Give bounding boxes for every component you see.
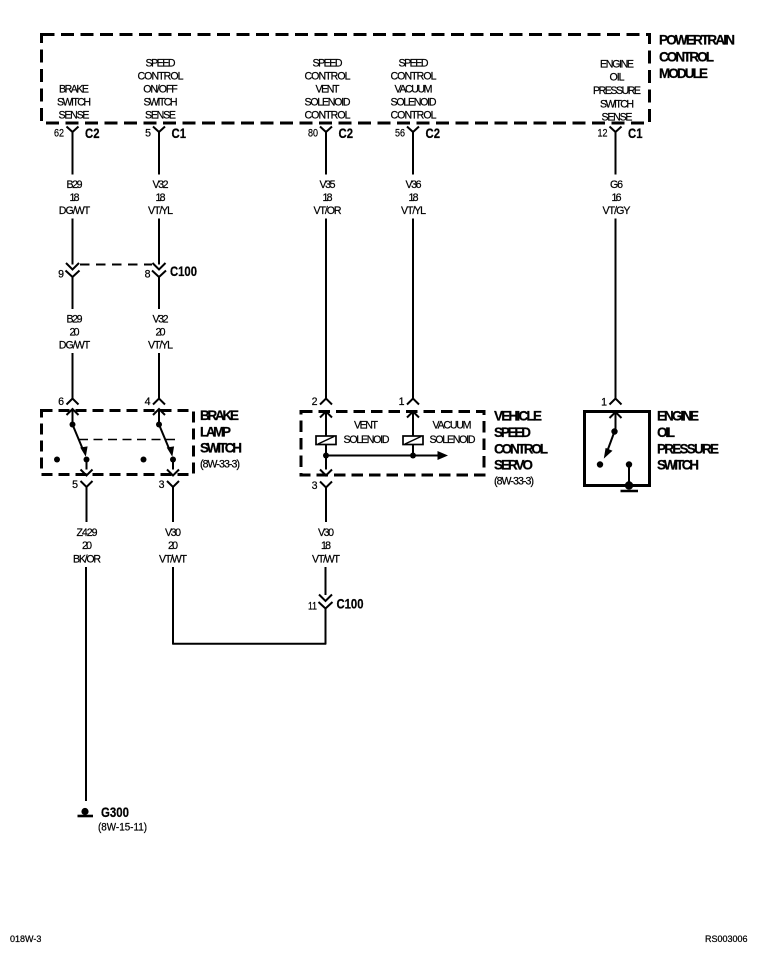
svg-text:20: 20 xyxy=(168,540,178,552)
engine oil pressure switch pin 1 xyxy=(601,397,621,432)
svg-text:CONTROL: CONTROL xyxy=(494,442,548,457)
svg-text:3: 3 xyxy=(312,480,318,492)
connector C2 pin 62 (PCM) xyxy=(54,126,100,141)
wire V30 18 VT/WT xyxy=(312,488,341,596)
vent solenoid label xyxy=(344,420,390,447)
svg-text:V30: V30 xyxy=(318,527,334,539)
svg-text:PRESSURE: PRESSURE xyxy=(593,85,641,97)
wire V30 to junction (vertical below C100) xyxy=(325,609,327,644)
svg-text:11: 11 xyxy=(308,601,317,613)
vacuum solenoid coil symbol xyxy=(403,436,423,456)
svg-text:ENGINE: ENGINE xyxy=(657,409,699,424)
svg-text:SOLENOID: SOLENOID xyxy=(430,434,476,446)
svg-text:CONTROL: CONTROL xyxy=(391,110,437,122)
wire V32 18 VT/YL (upper) xyxy=(148,139,173,265)
svg-text:VACUUM: VACUUM xyxy=(433,420,472,432)
brake lamp switch pole 1 open contact dot xyxy=(54,457,60,463)
svg-text:B29: B29 xyxy=(67,179,83,191)
servo pin 2 xyxy=(312,396,332,436)
servo pin 1 xyxy=(399,396,419,436)
drawing number xyxy=(705,934,748,944)
svg-text:VT/WT: VT/WT xyxy=(159,554,188,566)
svg-text:LAMP: LAMP xyxy=(200,425,231,440)
wire V36 18 VT/YL xyxy=(401,139,426,399)
svg-text:SENSE: SENSE xyxy=(145,110,176,122)
svg-text:DG/WT: DG/WT xyxy=(59,340,91,352)
svg-text:SOLENOID: SOLENOID xyxy=(305,97,351,109)
svg-text:C1: C1 xyxy=(172,126,187,141)
svg-text:2: 2 xyxy=(312,396,318,408)
svg-text:VT/YL: VT/YL xyxy=(148,205,173,217)
svg-text:C1: C1 xyxy=(628,126,643,141)
svg-text:12: 12 xyxy=(598,128,608,140)
vehicle speed control servo box (dashed) xyxy=(301,412,484,476)
svg-text:80: 80 xyxy=(308,128,318,140)
connector C100 pin 11 (in-line) xyxy=(308,595,364,613)
svg-text:MODULE: MODULE xyxy=(659,66,708,81)
svg-text:OIL: OIL xyxy=(610,72,625,84)
svg-text:C2: C2 xyxy=(339,126,354,141)
PCM pin label: BRAKE SWITCH SENSE xyxy=(57,84,91,122)
svg-text:B29: B29 xyxy=(67,314,83,326)
svg-text:SPEED: SPEED xyxy=(313,58,343,70)
vacuum solenoid label xyxy=(430,420,476,447)
svg-text:9: 9 xyxy=(58,269,64,281)
svg-text:5: 5 xyxy=(145,128,151,140)
svg-text:56: 56 xyxy=(395,128,405,140)
svg-text:V32: V32 xyxy=(153,179,169,191)
svg-text:PRESSURE: PRESSURE xyxy=(657,442,719,457)
svg-text:018W-3: 018W-3 xyxy=(10,934,41,944)
svg-text:VEHICLE: VEHICLE xyxy=(494,409,542,424)
svg-text:V30: V30 xyxy=(165,527,181,539)
svg-text:BRAKE: BRAKE xyxy=(59,84,89,96)
svg-text:G6: G6 xyxy=(610,179,623,191)
svg-text:Z429: Z429 xyxy=(77,527,98,539)
PCM name: POWERTRAIN CONTROL MODULE xyxy=(659,33,735,82)
svg-text:POWERTRAIN: POWERTRAIN xyxy=(659,33,735,48)
svg-text:SERVO: SERVO xyxy=(494,458,533,473)
svg-text:SPEED: SPEED xyxy=(146,58,176,70)
svg-text:1: 1 xyxy=(601,397,607,409)
wire G6 16 VT/GY xyxy=(603,139,631,399)
svg-text:18: 18 xyxy=(409,192,419,204)
svg-text:18: 18 xyxy=(321,540,331,552)
svg-text:16: 16 xyxy=(612,192,622,204)
brake lamp switch pin 4 xyxy=(145,396,165,425)
connector C2 pin 56 (PCM) xyxy=(395,126,440,141)
brake lamp switch pole 1 (contact dots and lever) xyxy=(70,422,90,470)
svg-text:C100: C100 xyxy=(337,597,364,612)
PCM pin label: SPEED CONTROL VACUUM SOLENOID CONTROL xyxy=(391,58,437,122)
svg-text:(8W-33-3): (8W-33-3) xyxy=(494,476,534,488)
svg-text:VT/YL: VT/YL xyxy=(401,205,426,217)
engine oil pressure switch box (solid) xyxy=(585,412,650,486)
brake lamp switch pole 2 open contact dot xyxy=(141,457,147,463)
engine oil pressure switch contacts and lever xyxy=(597,428,618,467)
wire B29 18 DG/WT (upper) xyxy=(59,139,91,265)
ground G300 xyxy=(78,805,148,834)
svg-text:20: 20 xyxy=(82,540,92,552)
svg-text:VT/YL: VT/YL xyxy=(148,340,173,352)
brake lamp switch box (dashed) xyxy=(42,411,194,475)
svg-text:18: 18 xyxy=(70,192,80,204)
PCM pin label: ENGINE OIL PRESSURE SWITCH SENSE xyxy=(593,59,641,124)
wire V30 20 VT/WT xyxy=(159,487,188,644)
svg-text:3: 3 xyxy=(159,479,165,491)
svg-text:G300: G300 xyxy=(101,805,129,820)
connector C100 pin 8 (in-line) xyxy=(145,263,197,281)
svg-text:VACUUM: VACUUM xyxy=(395,84,433,96)
svg-text:SENSE: SENSE xyxy=(59,110,90,122)
svg-text:SWITCH: SWITCH xyxy=(600,99,634,111)
svg-text:CONTROL: CONTROL xyxy=(305,71,351,83)
vent solenoid coil symbol xyxy=(316,436,336,456)
svg-text:18: 18 xyxy=(156,192,166,204)
svg-text:VENT: VENT xyxy=(316,84,341,96)
wire joining V30 branches (horizontal) xyxy=(172,643,326,645)
svg-text:V36: V36 xyxy=(406,179,422,191)
svg-text:SPEED: SPEED xyxy=(494,425,531,440)
sheet number xyxy=(10,934,41,944)
svg-text:ENGINE: ENGINE xyxy=(600,59,634,71)
PCM module box (dashed) xyxy=(42,35,650,124)
PCM pin label: SPEED CONTROL ON/OFF SWITCH SENSE xyxy=(138,58,184,122)
svg-text:RS003006: RS003006 xyxy=(705,934,748,944)
svg-text:CONTROL: CONTROL xyxy=(305,110,351,122)
svg-text:SENSE: SENSE xyxy=(602,112,633,124)
wire Z429 20 BK/OR xyxy=(73,487,101,801)
brake lamp switch mechanical linkage (dashed) xyxy=(79,439,175,441)
svg-text:SWITCH: SWITCH xyxy=(57,97,91,109)
svg-text:VT/GY: VT/GY xyxy=(603,205,631,217)
connector C2 pin 80 (PCM) xyxy=(308,126,353,141)
servo pin 3 xyxy=(312,470,332,493)
engine oil pressure switch name xyxy=(657,409,719,473)
svg-text:SPEED: SPEED xyxy=(399,58,429,70)
svg-text:BK/OR: BK/OR xyxy=(73,554,101,566)
svg-text:8: 8 xyxy=(145,269,151,281)
svg-text:CONTROL: CONTROL xyxy=(391,71,437,83)
svg-text:(8W-15-11): (8W-15-11) xyxy=(98,822,147,834)
svg-text:DG/WT: DG/WT xyxy=(59,205,91,217)
connector C1 pin 5 (PCM) xyxy=(145,126,186,141)
svg-text:SWITCH: SWITCH xyxy=(144,97,178,109)
brake lamp switch pin 5 xyxy=(72,470,92,492)
PCM pin label: SPEED CONTROL VENT SOLENOID CONTROL xyxy=(305,58,351,122)
connector C1 pin 12 (PCM) xyxy=(598,126,643,141)
svg-text:BRAKE: BRAKE xyxy=(200,408,239,423)
svg-text:SOLENOID: SOLENOID xyxy=(344,434,390,446)
svg-text:V32: V32 xyxy=(153,314,169,326)
svg-text:V35: V35 xyxy=(320,179,336,191)
svg-text:C100: C100 xyxy=(170,264,197,279)
svg-text:1: 1 xyxy=(399,396,405,408)
svg-text:C2: C2 xyxy=(426,126,441,141)
svg-text:CONTROL: CONTROL xyxy=(659,50,714,65)
svg-text:ON/OFF: ON/OFF xyxy=(143,84,178,96)
svg-text:C2: C2 xyxy=(85,126,100,141)
engine oil pressure switch ground contact xyxy=(621,461,639,491)
svg-text:4: 4 xyxy=(145,396,151,408)
C100 harness link (dashed) xyxy=(80,264,152,266)
svg-text:SOLENOID: SOLENOID xyxy=(391,97,437,109)
wire V32 20 VT/YL (lower) xyxy=(148,278,173,399)
svg-text:VT/OR: VT/OR xyxy=(314,205,342,217)
brake lamp switch pin 3 xyxy=(159,470,179,492)
brake lamp switch pin 6 xyxy=(58,396,78,425)
svg-text:5: 5 xyxy=(72,479,78,491)
svg-text:SWITCH: SWITCH xyxy=(657,458,699,473)
svg-text:VT/WT: VT/WT xyxy=(312,554,341,566)
wire V35 18 VT/OR xyxy=(314,139,342,399)
vehicle speed control servo name xyxy=(494,409,548,488)
svg-text:OIL: OIL xyxy=(657,425,675,440)
svg-text:6: 6 xyxy=(58,396,64,408)
svg-text:VENT: VENT xyxy=(354,420,379,432)
svg-text:CONTROL: CONTROL xyxy=(138,71,184,83)
svg-text:20: 20 xyxy=(70,327,80,339)
servo internal common rail with arrow xyxy=(323,451,448,470)
brake lamp switch name xyxy=(200,408,242,471)
svg-text:(8W-33-3): (8W-33-3) xyxy=(200,459,240,471)
svg-text:18: 18 xyxy=(323,192,333,204)
connector C100 pin 9 (in-line) xyxy=(58,263,79,281)
wire B29 20 DG/WT (lower) xyxy=(59,278,91,399)
svg-text:20: 20 xyxy=(156,327,166,339)
svg-text:SWITCH: SWITCH xyxy=(200,441,242,456)
brake lamp switch pole 2 (contact dots and lever) xyxy=(156,422,176,470)
svg-text:62: 62 xyxy=(54,128,64,140)
